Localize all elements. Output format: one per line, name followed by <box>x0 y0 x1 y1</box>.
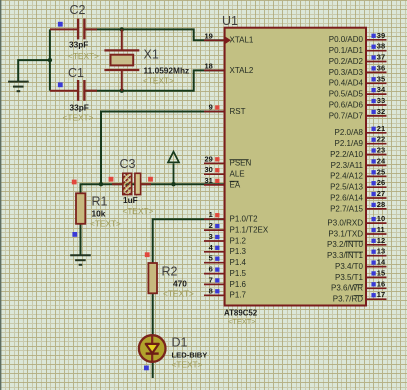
pin 21 P2.0/A8 (right) <box>366 132 387 134</box>
svg-text:7: 7 <box>209 275 213 284</box>
svg-text:P1.2: P1.2 <box>230 236 247 245</box>
resistor R1 <box>76 193 85 224</box>
capacitor C1 <box>50 90 77 92</box>
svg-text:19: 19 <box>204 31 212 40</box>
svg-text:P2.0/A8: P2.0/A8 <box>335 128 364 137</box>
svg-text:P2.4/A12: P2.4/A12 <box>330 172 363 181</box>
pin 3 P1.2 (left) <box>204 240 225 242</box>
svg-text:XTAL1: XTAL1 <box>230 36 254 45</box>
LED D1 <box>139 335 166 362</box>
svg-text:<TEXT>: <TEXT> <box>228 317 256 326</box>
pin 25 P2.4/A12 (right) <box>366 175 387 177</box>
svg-text:P0.5/AD5: P0.5/AD5 <box>329 90 364 99</box>
pin 6 P1.5 (left) <box>204 273 225 275</box>
svg-text:P0.3/AD3: P0.3/AD3 <box>329 68 364 77</box>
wire: left vertical rail C2-C1 <box>49 29 51 90</box>
svg-text:1uF: 1uF <box>123 195 138 205</box>
pin 37 P0.2/AD2 (right) <box>366 61 387 63</box>
svg-text:10: 10 <box>377 214 385 223</box>
pin 7 P1.6 (left) <box>204 283 225 285</box>
svg-text:P3.5/T1: P3.5/T1 <box>335 273 364 282</box>
junction node RST/reset <box>99 182 103 186</box>
ground (top left) <box>8 81 29 83</box>
pin 8 P1.7 (left) <box>204 294 225 296</box>
svg-text:<TEXT>: <TEXT> <box>90 219 121 229</box>
crystal X1 <box>121 29 123 49</box>
svg-text:470: 470 <box>173 279 187 289</box>
wire: rail to ground <box>18 60 50 81</box>
pin 36 P0.3/AD3 (right) <box>366 71 387 73</box>
capacitor C3 (electrolytic) <box>112 183 123 185</box>
pin 15 P3.5/T1 (right) <box>366 276 387 278</box>
svg-text:24: 24 <box>377 156 386 165</box>
pin 4 P1.3 (left) <box>204 251 225 253</box>
pin 16 P3.6/WR (right) <box>366 287 387 289</box>
pin 34 P0.5/AD5 (right) <box>366 93 387 95</box>
svg-text:13: 13 <box>377 247 385 256</box>
pin 27 P2.6/A14 (right) <box>366 197 387 199</box>
D1 marker square <box>144 366 149 371</box>
pin 35 P0.4/AD4 (right) <box>366 82 387 84</box>
pin 1 P1.0/T2 (left) <box>204 218 225 220</box>
svg-text:P1.6: P1.6 <box>230 280 247 289</box>
svg-text:11: 11 <box>377 225 385 234</box>
svg-text:25: 25 <box>377 167 385 176</box>
svg-text:P0.1/AD1: P0.1/AD1 <box>329 46 364 55</box>
wire: RST net <box>101 112 225 185</box>
svg-text:5: 5 <box>209 254 213 263</box>
svg-text:P3.1/TXD: P3.1/TXD <box>328 229 363 238</box>
svg-text:36: 36 <box>377 63 385 72</box>
svg-text:39: 39 <box>377 31 385 40</box>
pin 10 P3.0/RXD (right) <box>366 222 387 224</box>
svg-text:P0.0/AD0: P0.0/AD0 <box>329 35 364 44</box>
ground (below R1) <box>70 254 91 256</box>
svg-text:33pF: 33pF <box>69 40 88 50</box>
XTAL1 clock input arrow <box>226 37 232 44</box>
C2 marker square <box>58 22 63 27</box>
op IC U1 AT89C52 body <box>225 28 366 306</box>
svg-text:C1: C1 <box>68 66 84 80</box>
pin 31 EA (left) <box>204 184 225 186</box>
svg-text:P2.7/A15: P2.7/A15 <box>330 204 363 213</box>
pin 17 P3.7/RD (right) <box>366 298 387 300</box>
svg-text:P0.4/AD4: P0.4/AD4 <box>329 79 364 88</box>
svg-text:12: 12 <box>377 236 385 245</box>
svg-text:P0.6/AD6: P0.6/AD6 <box>329 100 364 109</box>
svg-text:P1.1/T2EX: P1.1/T2EX <box>230 226 269 235</box>
svg-text:P1.5: P1.5 <box>230 269 247 278</box>
svg-text:<TEXT>: <TEXT> <box>123 206 154 216</box>
svg-text:<TEXT>: <TEXT> <box>172 360 203 370</box>
svg-text:P2.3/A11: P2.3/A11 <box>331 161 364 170</box>
svg-text:U1: U1 <box>222 14 238 28</box>
svg-text:C3: C3 <box>120 157 136 171</box>
svg-text:35: 35 <box>377 74 385 83</box>
wire: reset node to EA pin <box>81 184 225 193</box>
C3 marker squares <box>109 177 114 182</box>
pin 9 RST (left) <box>204 111 225 113</box>
pin 32 P0.7/AD7 (right) <box>366 115 387 117</box>
svg-text:29: 29 <box>204 154 212 163</box>
pin 14 P3.4/T0 (right) <box>366 266 387 268</box>
R2 marker square <box>145 252 150 257</box>
svg-text:31: 31 <box>204 176 212 185</box>
junction node at crystal top <box>120 27 124 31</box>
pin 30 ALE (left) <box>204 173 225 175</box>
svg-text:28: 28 <box>377 200 385 209</box>
svg-text:9: 9 <box>209 103 213 112</box>
junction node at ground rail <box>48 58 52 62</box>
svg-text:D1: D1 <box>172 336 188 350</box>
svg-text:P2.5/A13: P2.5/A13 <box>330 183 363 192</box>
svg-text:33pF: 33pF <box>70 103 89 113</box>
pin 28 P2.7/A15 (right) <box>366 208 387 210</box>
svg-text:1: 1 <box>209 210 213 219</box>
svg-text:34: 34 <box>377 85 386 94</box>
wire: C2 right plate to XTAL1 <box>85 29 224 40</box>
svg-text:RST: RST <box>230 107 246 116</box>
svg-text:27: 27 <box>377 189 385 198</box>
svg-text:3: 3 <box>209 232 213 241</box>
svg-text:26: 26 <box>377 178 385 187</box>
svg-text:33: 33 <box>377 96 385 105</box>
pin 24 P2.3/A11 (right) <box>366 164 387 166</box>
R1 top marker square <box>72 180 77 185</box>
svg-text:P1.3: P1.3 <box>230 247 247 256</box>
pin 23 P2.2/A10 (right) <box>366 154 387 156</box>
svg-text:10k: 10k <box>92 209 106 219</box>
svg-text:X1: X1 <box>144 48 159 62</box>
pin 19 XTAL1 (left) <box>204 39 225 41</box>
svg-text:<TEXT>: <TEXT> <box>143 76 174 86</box>
pin 38 P0.1/AD1 (right) <box>366 50 387 52</box>
svg-text:23: 23 <box>377 146 385 155</box>
svg-text:P1.4: P1.4 <box>230 258 247 267</box>
svg-text:ALE: ALE <box>230 170 245 179</box>
svg-text:P1.0/T2: P1.0/T2 <box>230 215 259 224</box>
pin 39 P0.0/AD0 (right) <box>366 39 387 41</box>
svg-text:P2.6/A14: P2.6/A14 <box>330 193 363 202</box>
pin 13 P3.3/INT1 (right) <box>366 255 387 257</box>
pin 22 P2.1/A9 (right) <box>366 143 387 145</box>
svg-text:P3.4/T0: P3.4/T0 <box>335 262 364 271</box>
svg-text:8: 8 <box>209 286 213 295</box>
R1 marker square <box>72 232 77 237</box>
svg-text:LED-BIBY: LED-BIBY <box>172 351 208 360</box>
svg-text:R2: R2 <box>162 265 178 279</box>
svg-text:14: 14 <box>377 258 386 267</box>
svg-text:15: 15 <box>377 268 385 277</box>
svg-text:37: 37 <box>377 53 385 62</box>
pin 18 XTAL2 (left) <box>204 69 225 71</box>
wire: P1.0 to R2/D1 vertical <box>153 219 225 378</box>
svg-text:6: 6 <box>209 265 213 274</box>
wire: VCC arrow stem <box>173 164 175 185</box>
power terminal VCC arrow <box>168 152 179 163</box>
pin 26 P2.5/A13 (right) <box>366 186 387 188</box>
svg-text:P2.1/A9: P2.1/A9 <box>335 139 364 148</box>
C1 marker square <box>58 82 63 87</box>
pin 5 P1.4 (left) <box>204 262 225 264</box>
junction node at crystal bottom <box>120 89 124 93</box>
svg-text:38: 38 <box>377 42 385 51</box>
svg-text:21: 21 <box>377 124 385 133</box>
svg-text:P0.2/AD2: P0.2/AD2 <box>329 57 364 66</box>
svg-text:18: 18 <box>204 61 212 70</box>
svg-text:<TEXT>: <TEXT> <box>63 113 94 123</box>
svg-text:17: 17 <box>377 290 385 299</box>
junction node VCC/EA <box>171 182 175 186</box>
svg-text:11.0592Mhz: 11.0592Mhz <box>144 66 190 76</box>
svg-text:XTAL2: XTAL2 <box>230 66 254 75</box>
pin 12 P3.2/INT0 (right) <box>366 244 387 246</box>
svg-text:22: 22 <box>377 135 385 144</box>
pin 11 P3.1/TXD (right) <box>366 233 387 235</box>
svg-text:32: 32 <box>377 107 385 116</box>
svg-text:P1.7: P1.7 <box>230 291 247 300</box>
capacitor C2 <box>50 28 77 30</box>
svg-text:C2: C2 <box>70 3 86 17</box>
svg-text:30: 30 <box>204 165 212 174</box>
svg-text:P3.0/RXD: P3.0/RXD <box>327 219 363 228</box>
svg-text:P2.2/A10: P2.2/A10 <box>330 150 363 159</box>
wire: C1 right plate to XTAL2 <box>85 70 224 90</box>
svg-text:<TEXT>: <TEXT> <box>68 51 99 61</box>
pin 29 PSEN (left) <box>204 162 225 164</box>
svg-text:16: 16 <box>377 279 385 288</box>
wire: R1 to ground <box>80 224 82 256</box>
svg-text:P0.7/AD7: P0.7/AD7 <box>329 111 364 120</box>
svg-text:2: 2 <box>209 221 213 230</box>
pin 33 P0.6/AD6 (right) <box>366 104 387 106</box>
pin 2 P1.1/T2EX (left) <box>204 229 225 231</box>
resistor R2 <box>148 263 157 293</box>
svg-text:<TEXT>: <TEXT> <box>163 289 194 299</box>
svg-text:R1: R1 <box>92 195 108 209</box>
window left border <box>0 0 2 390</box>
